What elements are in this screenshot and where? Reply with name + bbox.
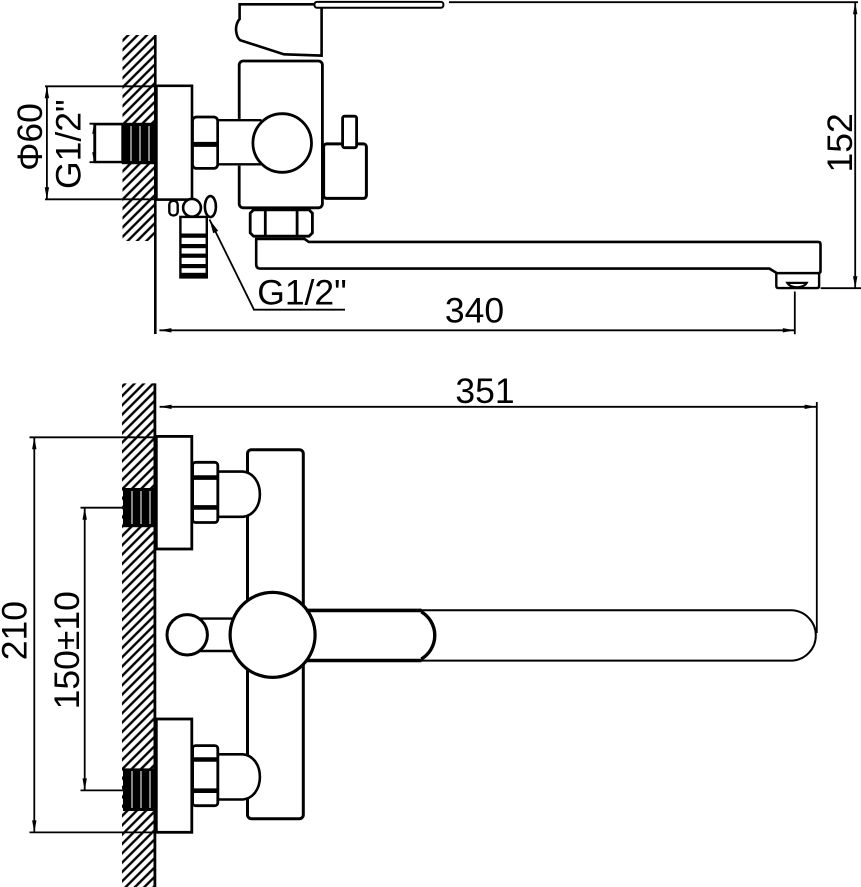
lever bar (top view)	[315, 2, 444, 8]
dim 150+-10 arrows	[83, 508, 87, 520]
black thread block upper	[123, 488, 155, 527]
wall face line (lower view)	[153, 383, 156, 887]
leader line for G1/2 hose thread	[210, 220, 346, 310]
hex nut upper (front)	[193, 462, 218, 522]
leader arrowhead	[210, 220, 219, 234]
wall hatch (top view)	[123, 35, 155, 241]
tailpiece with dome upper	[218, 472, 260, 517]
dim 210 arrows	[32, 437, 36, 449]
cartridge circle	[253, 114, 312, 173]
dim 351 extension line (right)	[816, 402, 818, 633]
handle boss circle	[230, 592, 315, 677]
faucet body (top view)	[239, 61, 322, 208]
dim Phi60 arrows	[45, 86, 49, 98]
aerator housing at spout tip	[776, 273, 819, 289]
hose barb connector	[180, 217, 206, 278]
dim 351 line	[160, 406, 817, 408]
dim 340 arrows	[159, 328, 171, 332]
svg-text:150±10: 150±10	[47, 591, 87, 709]
eccentric thread black block in wall	[122, 123, 156, 164]
dim 210 line	[33, 437, 35, 832]
dim 152 line	[854, 2, 856, 288]
escutcheon flange (top view)	[156, 86, 192, 200]
spout (front view) thin outline	[422, 610, 816, 660]
hex nut lower (front)	[193, 746, 218, 806]
dim Phi60 extension lines	[45, 85, 157, 87]
shower outlet collar ellipse	[205, 196, 216, 217]
aerator housing top edge	[776, 272, 819, 274]
spout base end cap arc	[421, 612, 434, 659]
dim 152 extension line (bottom)	[821, 287, 861, 289]
handle knob circle	[167, 615, 207, 655]
dim 340 extension line (right)	[794, 292, 796, 335]
dim 210 extension line (bottom)	[30, 831, 193, 833]
dim 210 extension line (top)	[30, 436, 156, 438]
black thread block lower	[123, 768, 155, 811]
dim 340 line	[159, 329, 794, 331]
svg-text:G1/2": G1/2"	[257, 273, 347, 313]
dim 150+-10 line	[84, 508, 86, 791]
aerator outlet bump	[787, 283, 806, 287]
big hex nut under body	[250, 210, 312, 236]
body bar (front)	[248, 450, 304, 819]
diverter housing	[324, 144, 367, 199]
dim Phi60 line	[46, 86, 48, 199]
wall face line (top view)	[154, 35, 157, 334]
svg-text:152: 152	[820, 113, 860, 172]
svg-text:210: 210	[0, 601, 34, 660]
diverter knob	[343, 116, 357, 148]
hex nut on inlet (top view)	[193, 117, 218, 168]
dim 351 arrows	[160, 405, 172, 409]
dim 152 extension line (top)	[449, 1, 858, 3]
thread dim line	[93, 124, 95, 163]
dim 150+-10 extension line (bottom)	[81, 789, 124, 791]
thread dim extension lines	[90, 123, 123, 125]
svg-text:G1/2": G1/2"	[49, 99, 89, 189]
spout thick base top line	[306, 609, 422, 613]
eccentric pipe white portion	[95, 124, 123, 162]
handle cap (top view)	[236, 4, 322, 55]
escutcheon upper (front)	[156, 436, 192, 549]
spout thick base bottom line	[306, 659, 422, 663]
svg-text:351: 351	[455, 371, 514, 411]
handle stem lines	[195, 617, 236, 619]
dim 152 arrows	[853, 2, 857, 14]
dim 150+-10 extension line (top)	[81, 507, 123, 509]
thread dim arrows	[92, 124, 96, 134]
svg-text:340: 340	[445, 291, 504, 331]
svg-text:Φ60: Φ60	[10, 103, 50, 171]
escutcheon lower (front)	[156, 719, 192, 832]
shower outlet ball	[183, 199, 201, 217]
tailpiece with dome lower	[218, 754, 260, 799]
wall hatch (lower view)	[122, 383, 155, 887]
inlet tailpiece (passes over body edge)	[219, 119, 260, 166]
spout (top view)	[256, 239, 820, 273]
shower outlet cylinder	[169, 201, 177, 216]
